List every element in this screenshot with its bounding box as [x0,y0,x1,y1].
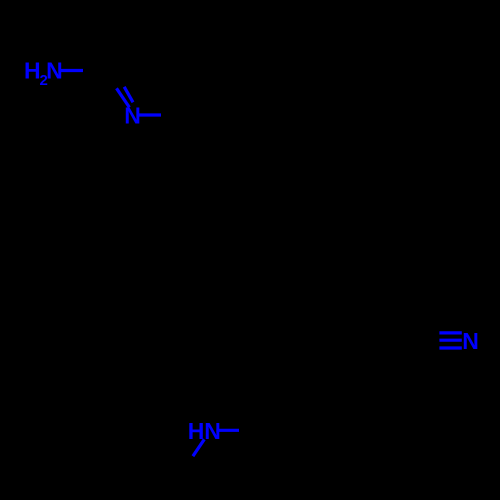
wire bond from imine N going right [139,113,161,116]
wire bond from H2N to amidine C [60,69,83,72]
wire nitrile triple bond bottom line [439,346,461,349]
svg-text:N: N [462,328,479,354]
wire nitrile triple bond top line [439,331,461,334]
amine label H2N [24,58,63,90]
wire nitrile triple bond middle line [439,339,461,342]
wire bond from HN going right to methyl [216,429,239,432]
svg-text:N: N [124,103,141,129]
wire C=N double bond main line [117,88,130,107]
svg-text:H: H [188,418,205,444]
svg-text:N: N [46,58,63,84]
wire bond from HN going down-left [193,439,204,456]
svg-text:H: H [24,58,41,84]
wire C=N double bond inner line [124,87,133,103]
node methylamino HN label [188,418,221,444]
